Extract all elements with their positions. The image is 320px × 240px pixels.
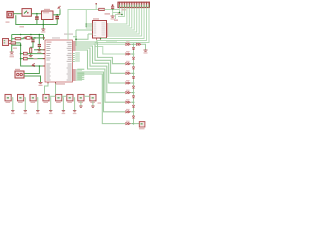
resistor R2 xyxy=(11,42,16,44)
wire C4 top xyxy=(38,35,40,45)
wire top net xyxy=(12,34,44,36)
wire to U2 left pin xyxy=(86,10,92,29)
pin stubs IC1 right xyxy=(73,42,76,80)
wire switch to regulator xyxy=(31,13,41,15)
junction xyxy=(39,65,41,67)
wire row6 xyxy=(76,48,125,93)
junction xyxy=(133,111,135,113)
text U2 label xyxy=(93,18,99,19)
text X1 label xyxy=(6,22,10,23)
LED D4 xyxy=(133,73,135,76)
wire fan pin8 xyxy=(108,8,136,33)
junction xyxy=(86,23,88,25)
pin stubs U2 left xyxy=(91,24,93,34)
wire U2 left pin4 xyxy=(76,29,93,31)
connector X4 bottom right xyxy=(139,122,145,127)
junction xyxy=(119,12,121,14)
wire to R4 xyxy=(21,58,24,60)
resistor R11 xyxy=(126,53,131,55)
junction xyxy=(75,38,77,40)
junction xyxy=(30,34,32,36)
wires IC1 right bottom with net labels xyxy=(76,69,82,71)
junction xyxy=(20,53,22,55)
net label stubs IC1 right middle xyxy=(73,53,75,55)
wire stub up xyxy=(95,4,97,9)
wire row4 xyxy=(76,44,125,73)
text label GND rail xyxy=(20,26,25,27)
junction xyxy=(56,14,58,16)
text X3 label xyxy=(15,69,20,70)
LED D2 xyxy=(133,54,135,57)
wire row3 xyxy=(76,42,125,64)
text pin labels U2 xyxy=(102,22,106,25)
wire row7 xyxy=(76,50,125,102)
wire R2 right xyxy=(16,42,21,44)
junction xyxy=(121,14,123,16)
LED D5 xyxy=(133,83,135,86)
connector J8 xyxy=(90,94,96,101)
text label pin2 xyxy=(114,20,118,21)
wire ground rail xyxy=(16,15,57,24)
wire fuse to connector pin xyxy=(104,9,119,11)
wire fan pin3 xyxy=(118,8,124,17)
wire fan pin9 xyxy=(108,8,139,35)
ground J8G xyxy=(91,106,94,107)
wire to C3 xyxy=(32,38,34,40)
wire links between bottom connectors xyxy=(49,95,56,97)
wire regulator gnd pin xyxy=(42,20,44,30)
junction xyxy=(133,53,135,55)
wire row8 xyxy=(76,72,125,112)
text GND2 label xyxy=(10,56,15,57)
wire fan pin1 xyxy=(113,8,120,13)
wire fan pin11 xyxy=(101,8,145,39)
ground GND4 xyxy=(39,82,43,83)
junction xyxy=(39,34,41,36)
ground GND1 xyxy=(41,29,45,30)
capacitor C5 vertical xyxy=(111,7,114,9)
wire to J5 xyxy=(55,84,57,95)
VCC symbol +5V xyxy=(58,6,61,8)
wire IC bottom feed to J4 xyxy=(45,84,49,95)
resistor R12 xyxy=(126,63,131,65)
wire fan pin7 xyxy=(108,8,134,31)
text pin labels right column xyxy=(67,41,72,44)
junction xyxy=(20,58,22,60)
junction xyxy=(36,13,38,15)
ground J6G xyxy=(73,111,76,112)
capacitor C4 xyxy=(38,45,41,47)
connector SV1 pin stubs below xyxy=(120,8,150,10)
op-amp IC1 main MCU box xyxy=(45,40,73,82)
resistor R17 xyxy=(126,111,131,113)
connector SV1 pins xyxy=(120,5,150,8)
wire VCC rail top xyxy=(68,10,99,41)
resistor R4 xyxy=(23,57,27,60)
ground J1G xyxy=(11,111,14,112)
wire h3 xyxy=(12,44,21,46)
connector J7 xyxy=(78,94,84,101)
resistor R13 xyxy=(126,72,131,74)
wire to gnd5 xyxy=(112,10,114,17)
wire to R3 xyxy=(21,53,24,55)
text pin labels left column xyxy=(46,43,50,46)
ground GND6 xyxy=(144,50,148,51)
resistor R3 xyxy=(23,52,27,55)
wire v2 to IC xyxy=(21,43,45,66)
ground GND5 xyxy=(111,16,115,17)
text 7805 label xyxy=(44,9,50,10)
wire fan pin6 xyxy=(108,8,131,29)
junction xyxy=(43,24,45,26)
ground J7G xyxy=(79,106,82,107)
wire R4 to IC xyxy=(27,58,45,60)
connector J4 xyxy=(43,94,49,101)
connector J2 xyxy=(18,94,24,101)
connector J3 xyxy=(30,94,36,101)
pin stubs U2 bottom xyxy=(97,38,101,40)
text label fan xyxy=(122,9,127,10)
wire row9 xyxy=(76,74,125,124)
connector SV1 xyxy=(118,2,150,7)
wire C2 to gnd rail xyxy=(56,19,58,25)
switch S1 xyxy=(22,9,31,17)
junction xyxy=(133,44,135,46)
junction xyxy=(133,101,135,103)
wire regulator output xyxy=(53,14,60,16)
wire to IC top xyxy=(43,35,45,41)
ground J3G xyxy=(36,111,39,112)
text label fan2 xyxy=(118,13,121,14)
junction xyxy=(20,44,22,46)
ground J5G xyxy=(62,111,65,112)
resistor R10 xyxy=(126,43,131,45)
wire R3 to IC xyxy=(27,53,45,55)
junction xyxy=(112,9,114,11)
wire to C1 xyxy=(36,14,38,17)
junction xyxy=(133,73,135,75)
wire U2 left pin3 xyxy=(86,25,92,27)
text part name xyxy=(64,33,73,34)
junction xyxy=(100,38,101,39)
text IC1 xyxy=(47,42,52,43)
wire fan pin12 row1 xyxy=(97,8,147,45)
resistor R1 xyxy=(15,38,21,40)
wire X3 pin1 up xyxy=(24,66,39,74)
wire fan pin5 xyxy=(108,8,129,27)
wire to C2 xyxy=(56,15,58,16)
pin stubs IC1 bottom xyxy=(48,82,56,84)
connector J6 xyxy=(67,94,73,101)
text net label row7 xyxy=(98,103,102,104)
resistor R14 xyxy=(126,82,131,84)
wire jack to switch xyxy=(13,13,22,15)
wire fan pin10 xyxy=(108,8,141,37)
ground J2G xyxy=(24,111,27,112)
ground GND3 xyxy=(37,50,41,51)
junction xyxy=(86,25,88,27)
wire fan pin2 xyxy=(116,8,122,20)
LED D3 xyxy=(133,64,135,67)
VCC symbol 2 xyxy=(32,63,35,65)
wire fan pin13 row2 xyxy=(95,8,149,55)
capacitor C1 xyxy=(35,17,39,19)
text IC1 value xyxy=(56,83,65,84)
power jack X1 xyxy=(7,12,13,18)
wire row5 xyxy=(76,46,125,83)
text net label xyxy=(105,13,111,14)
resistor R18 xyxy=(126,123,131,125)
wire C1 to gnd rail xyxy=(36,19,38,24)
wire U2 left pin2 xyxy=(86,23,92,25)
wire R1 to crystal xyxy=(21,37,25,40)
wire jog xyxy=(76,34,88,39)
resistor R5 vertical xyxy=(30,48,32,53)
fuse F1 xyxy=(99,8,105,10)
text part value xyxy=(52,37,60,38)
connector X2 xyxy=(3,39,12,46)
capacitor C3 xyxy=(31,40,34,42)
LED D1 xyxy=(133,44,135,47)
ground GND7 xyxy=(29,55,33,56)
ground GND2 xyxy=(10,52,14,53)
junction xyxy=(133,82,135,84)
wire C4 bottom xyxy=(38,46,40,49)
resistor R16 xyxy=(126,101,131,103)
wire crystal right xyxy=(32,37,45,39)
wire C3 down xyxy=(31,42,33,48)
junction xyxy=(20,34,22,36)
LED D8 xyxy=(133,112,135,116)
junction xyxy=(34,37,36,39)
connector J1 xyxy=(5,94,11,101)
text label xyxy=(13,48,17,49)
junction xyxy=(133,63,135,65)
voltage regulator IC3 xyxy=(42,11,54,20)
junction xyxy=(133,92,135,94)
pin stubs IC1 left xyxy=(43,38,45,66)
junction xyxy=(133,123,135,125)
text label2 xyxy=(34,58,38,59)
wire down to IC1 pin46 xyxy=(75,30,77,46)
junction red xyxy=(33,65,35,67)
wire X3 pin2 to gnd xyxy=(24,76,41,82)
LED D6 xyxy=(133,93,135,96)
text X4 label xyxy=(139,128,145,129)
LED D7 xyxy=(133,102,135,105)
wire row1 ext xyxy=(134,43,137,45)
battery connector X3 xyxy=(15,71,24,78)
wire fan pin4 xyxy=(108,8,127,25)
wire to IC pin xyxy=(34,49,45,51)
crystal Q1 xyxy=(25,37,32,40)
resistor R15 xyxy=(126,92,131,94)
capacitor C2 xyxy=(55,17,59,19)
wire to R1 xyxy=(12,38,16,40)
ground J4G xyxy=(49,111,52,112)
connector J5 xyxy=(56,94,62,101)
wire to gnd6 xyxy=(141,44,145,50)
op-amp U2 interface IC box xyxy=(93,21,107,39)
wire R5 to gnd xyxy=(30,53,32,55)
pin stubs U2 right xyxy=(107,24,109,36)
wire vertical left xyxy=(11,35,13,52)
wire U2 left pin5 xyxy=(88,33,93,35)
wire to VCC xyxy=(59,9,61,15)
wire to X4 xyxy=(134,123,140,125)
